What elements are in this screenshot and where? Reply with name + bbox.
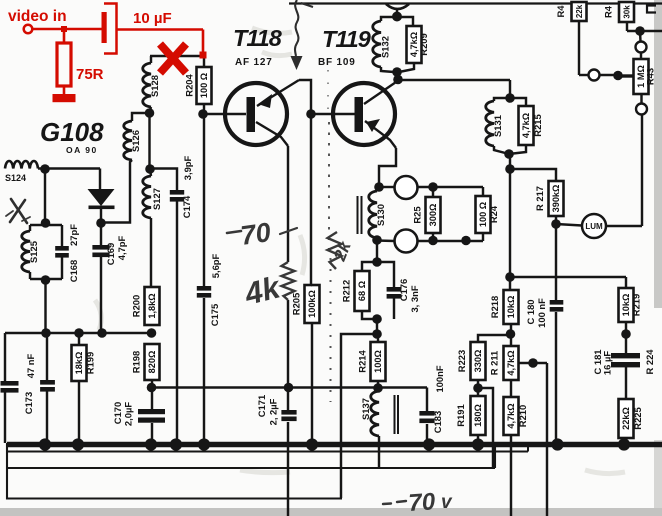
svg-text:10kΩ: 10kΩ [506, 296, 516, 319]
svg-text:T118: T118 [233, 25, 283, 51]
svg-text:R223: R223 [456, 350, 467, 372]
svg-text:330Ω: 330Ω [473, 350, 483, 373]
svg-text:LUM: LUM [585, 222, 603, 231]
svg-text:R43: R43 [645, 68, 656, 85]
svg-text:C176: C176 [398, 279, 409, 301]
svg-text:70: 70 [408, 488, 437, 516]
svg-text:AF 127: AF 127 [235, 57, 273, 68]
svg-text:R218: R218 [489, 296, 500, 318]
svg-text:390kΩ: 390kΩ [551, 185, 561, 213]
svg-text:16 µF: 16 µF [602, 351, 613, 375]
svg-text:C168: C168 [68, 260, 79, 282]
svg-text:S125: S125 [28, 241, 39, 263]
svg-text:video in: video in [8, 8, 67, 25]
svg-text:R214: R214 [357, 350, 368, 373]
svg-text:10 µF: 10 µF [133, 10, 172, 27]
svg-text:S137: S137 [360, 398, 371, 420]
svg-text:4,7pF: 4,7pF [116, 235, 127, 260]
svg-text:R212: R212 [341, 280, 352, 302]
svg-text:2,0µF: 2,0µF [123, 402, 134, 426]
svg-text:R4: R4 [603, 5, 614, 18]
svg-text:R210: R210 [517, 405, 528, 427]
svg-text:1,8kΩ: 1,8kΩ [147, 293, 157, 318]
svg-text:10kΩ: 10kΩ [621, 294, 631, 317]
svg-text:3, 3nF: 3, 3nF [409, 285, 420, 312]
svg-text:S126: S126 [130, 130, 141, 152]
svg-text:4,7kΩ: 4,7kΩ [521, 113, 531, 138]
svg-text:S132: S132 [380, 36, 391, 58]
svg-text:75R: 75R [76, 66, 104, 83]
svg-text:C 180: C 180 [525, 299, 536, 324]
svg-text:4,7kΩ: 4,7kΩ [506, 350, 516, 375]
svg-text:S130: S130 [375, 204, 386, 226]
svg-text:R198: R198 [131, 351, 142, 373]
svg-text:100 Ω: 100 Ω [478, 202, 488, 227]
svg-text:70: 70 [239, 217, 273, 251]
svg-text:BF 109: BF 109 [318, 57, 356, 68]
svg-text:R4: R4 [555, 5, 566, 18]
svg-text:22k: 22k [575, 4, 584, 18]
svg-text:C173: C173 [23, 392, 34, 414]
svg-text:C183: C183 [432, 411, 443, 433]
svg-text:5,6pF: 5,6pF [210, 253, 221, 278]
svg-text:R191: R191 [455, 404, 466, 426]
svg-text:S124: S124 [5, 173, 26, 183]
svg-text:R204: R204 [184, 74, 195, 97]
svg-text:R225: R225 [632, 407, 643, 429]
svg-text:300Ω: 300Ω [428, 204, 438, 227]
svg-text:R200: R200 [131, 295, 142, 317]
svg-text:100nF: 100nF [434, 365, 445, 392]
svg-text:T119: T119 [322, 26, 371, 52]
svg-text:R209: R209 [418, 33, 429, 55]
svg-text:27pF: 27pF [68, 224, 79, 246]
svg-text:R 211: R 211 [489, 351, 500, 376]
svg-text:R 224: R 224 [644, 349, 655, 375]
svg-text:820Ω: 820Ω [147, 351, 157, 374]
svg-text:C169: C169 [105, 243, 116, 265]
svg-text:R 217: R 217 [534, 186, 545, 211]
svg-text:180Ω: 180Ω [473, 404, 483, 427]
svg-text:2, 2µF: 2, 2µF [268, 398, 279, 425]
svg-text:R215: R215 [532, 114, 543, 136]
svg-text:22kΩ: 22kΩ [621, 407, 631, 430]
svg-text:47 nF: 47 nF [25, 353, 36, 378]
svg-text:C175: C175 [209, 304, 220, 326]
svg-text:100 nF: 100 nF [536, 298, 547, 328]
svg-text:3,9pF: 3,9pF [182, 155, 193, 180]
svg-text:G108: G108 [40, 117, 104, 147]
svg-text:v: v [441, 492, 453, 513]
svg-text:68 Ω: 68 Ω [357, 281, 367, 301]
svg-text:R24: R24 [488, 205, 499, 223]
svg-text:OA 90: OA 90 [66, 145, 98, 155]
svg-text:C174: C174 [181, 195, 192, 218]
svg-text:4,7kΩ: 4,7kΩ [506, 403, 516, 428]
svg-text:C171: C171 [256, 395, 267, 417]
svg-text:30k: 30k [623, 5, 632, 19]
svg-text:S127: S127 [151, 188, 162, 210]
svg-text:18kΩ: 18kΩ [74, 352, 84, 375]
svg-text:R219: R219 [631, 294, 642, 316]
svg-text:100 Ω: 100 Ω [199, 73, 209, 98]
svg-text:100Ω: 100Ω [373, 350, 383, 373]
svg-text:R205: R205 [291, 293, 302, 315]
svg-text:S128: S128 [149, 75, 160, 97]
svg-text:100kΩ: 100kΩ [307, 290, 317, 318]
svg-text:R25: R25 [412, 206, 423, 223]
svg-text:R199: R199 [85, 352, 96, 374]
svg-text:C170: C170 [112, 402, 123, 424]
svg-text:S131: S131 [492, 115, 503, 137]
